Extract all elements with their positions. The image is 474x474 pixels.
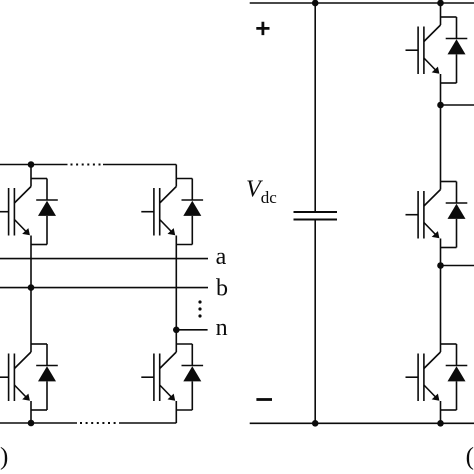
node: junction dot leg1 / bottom rail: [28, 420, 35, 427]
wire: DC-link upper wire to capacitor: [314, 3, 316, 212]
node: junction dot leg1 / phase b: [28, 284, 35, 291]
wire: phase line n: [176, 329, 207, 331]
diode D1 (antiparallel with Q1): [31, 179, 58, 245]
node: junction dot leg1 / top rail: [28, 161, 35, 168]
wire: tap from node between Q5 and Q6 to right edge: [441, 104, 474, 106]
wire: leg wire Q6 emitter to Q7 collector: [440, 248, 442, 331]
wire: phase line b: [0, 287, 208, 289]
wire: DC-link lower wire from capacitor: [314, 220, 316, 424]
wire: top DC rail solid right part to leg 2: [103, 164, 176, 166]
svg-text:a: a: [216, 244, 227, 270]
node: junction dot right leg / top rail: [437, 0, 444, 6]
diode D7 (antiparallel with Q7): [441, 344, 468, 410]
svg-text:(: (: [466, 443, 474, 470]
wire: top DC rail dotted continuation: [71, 164, 104, 166]
transistor Q4 (bottom of leg 2): [141, 330, 176, 410]
symbol: minus sign of DC bus: [256, 398, 272, 401]
diode D6 (antiparallel with Q6): [441, 182, 468, 248]
wire: bottom DC rail of left bridge (solid part left): [0, 422, 77, 424]
node: junction dot leg2 / phase n: [173, 327, 180, 334]
wire: bottom DC rail solid right part to leg 2: [119, 422, 176, 424]
node: junction dot DC-link / top rail: [312, 0, 319, 6]
transistor Q5 (top IGBT of right leg): [406, 3, 441, 83]
wire: leg 2 midpoint wire (Q2 emitter down to Q4 collector): [175, 245, 177, 331]
node: junction dot right leg tap 1: [437, 102, 444, 109]
diode D4 (antiparallel with Q4): [176, 344, 203, 410]
svg-text:): ): [0, 444, 8, 471]
wire: tap from node between Q6 and Q7 to right edge: [441, 265, 474, 267]
diode D5 (antiparallel with Q5): [441, 17, 468, 83]
wire: leg 1 emitter to bottom rail: [30, 410, 32, 423]
wire: phase line a: [0, 258, 208, 260]
transistor Q1 (top left IGBT): [0, 165, 31, 245]
wire: bottom DC rail of right figure: [250, 422, 474, 424]
transistor Q6 (middle IGBT of right leg): [406, 168, 441, 248]
wire: Q7 emitter to bottom rail: [440, 410, 442, 423]
svg-text:n: n: [216, 315, 228, 341]
diode D3 (antiparallel with Q3): [31, 344, 58, 410]
transistor Q3 (bottom of leg 1): [0, 330, 31, 410]
capacitor C1 bottom plate: [294, 219, 338, 221]
transistor Q2 (top of leg 2): [141, 165, 176, 245]
transistor Q7 (bottom IGBT of right leg): [406, 330, 441, 410]
wire: leg 2 emitter to bottom rail: [175, 410, 177, 423]
wire: leg wire Q5 emitter to Q6 collector: [440, 83, 442, 168]
wire: leg 1 midpoint wire (Q1 emitter down to Q3 collector): [30, 245, 32, 331]
symbol: plus sign of DC bus: [256, 22, 269, 35]
node: junction dot right leg / bottom rail: [437, 420, 444, 427]
wire: top DC rail of right figure: [250, 2, 474, 4]
capacitor C1 top plate: [294, 211, 338, 213]
node: junction dot right leg tap 2: [437, 262, 444, 269]
diode D2 (antiparallel with Q2): [176, 179, 203, 245]
node: junction dot DC-link / bottom rail: [312, 420, 319, 427]
ellipsis dots between phase b and n: [198, 300, 201, 303]
svg-text:dc: dc: [261, 188, 278, 207]
wire: top DC rail of left bridge (solid part left): [0, 164, 68, 166]
svg-text:b: b: [216, 276, 228, 302]
wire: bottom DC rail dotted continuation: [80, 422, 119, 424]
